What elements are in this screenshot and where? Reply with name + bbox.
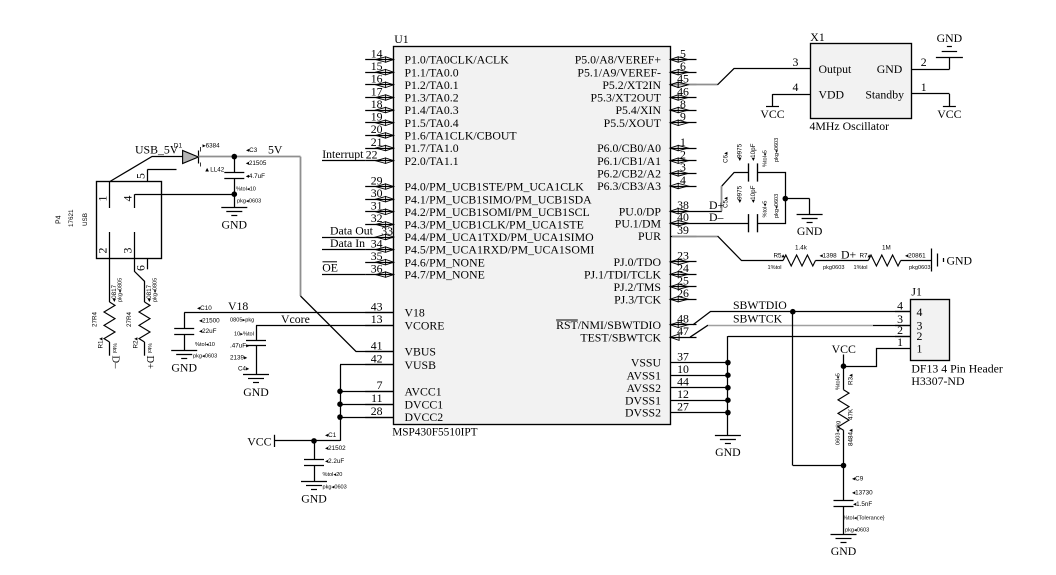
svg-text:GND: GND — [715, 445, 741, 459]
svg-text:C4▸: C4▸ — [238, 366, 249, 373]
U1 pin 10 AVSS1 — [626, 362, 696, 382]
supply VCC bottom left — [247, 434, 274, 448]
U1 pin 33 P4.4/PM_UCA1TXD/PM_UCA1SIMO — [365, 224, 594, 244]
junction 5V / C3 — [232, 154, 238, 160]
svg-text:R7▴: R7▴ — [860, 252, 871, 259]
svg-text:43: 43 — [371, 299, 383, 313]
svg-text:GND: GND — [937, 31, 963, 45]
junction SBWTDIO / pullup branch — [790, 309, 796, 315]
capacitor C6 — [749, 163, 758, 181]
junction DVCC2 rail — [337, 414, 343, 420]
ground under C9 — [831, 535, 857, 559]
svg-text:8484▴: 8484▴ — [848, 429, 855, 446]
U1 pin 25 PJ.2/TMS — [613, 274, 696, 294]
J1 pin 2 — [895, 323, 923, 343]
svg-text:◂10pF: ◂10pF — [750, 143, 757, 161]
svg-text:1: 1 — [897, 335, 903, 349]
U1 pin 17 P1.3/TA0.2 — [365, 84, 459, 104]
svg-text:P6.3/CB3/A3: P6.3/CB3/A3 — [597, 179, 661, 193]
wire R7 to sideways ground flag — [901, 260, 932, 262]
U1 pin 8 P5.4/XIN — [615, 97, 696, 117]
junction C5/C6 ground node — [783, 196, 789, 202]
svg-text:◂C10: ◂C10 — [197, 305, 212, 312]
wire 5V net vertical down and diagonal to VBUS pin 41 — [301, 157, 394, 352]
U1 pin 13 VCORE — [365, 312, 444, 332]
USB pin 5 stub — [133, 170, 176, 182]
svg-text:%tol: %tol — [111, 343, 117, 353]
wire Vcore net to pin 13 — [256, 325, 394, 327]
U1 pin 41 VBUS — [365, 338, 436, 358]
svg-text:◂4.7uF: ◂4.7uF — [246, 173, 265, 180]
svg-text:◂C1: ◂C1 — [325, 432, 337, 439]
svg-text:pkg◂0603: pkg◂0603 — [845, 528, 869, 534]
R7 attribute labels — [854, 245, 931, 272]
svg-text:TEST/SBWTCK: TEST/SBWTCK — [580, 330, 661, 344]
connector P4 USB receptacle body — [97, 182, 162, 259]
C4 attribute labels — [230, 318, 254, 373]
svg-text:0805▸pkg: 0805▸pkg — [230, 318, 254, 324]
svg-text:VDD: VDD — [819, 87, 845, 101]
supply VCC at X1 VDD — [760, 107, 784, 122]
svg-text:PJ.3/TCK: PJ.3/TCK — [614, 292, 661, 306]
wire R3 to C9 junction — [843, 430, 845, 465]
C3 attribute labels — [236, 147, 267, 205]
svg-text:◂9975: ◂9975 — [737, 185, 744, 203]
svg-text:C6▴: C6▴ — [723, 152, 730, 163]
U1 pin 37 VSSU — [631, 349, 697, 369]
U1 pin 1 P6.0/CB0/A0 — [597, 135, 696, 155]
ground above X1 pin 2 — [936, 31, 963, 57]
svg-text:P4: P4 — [56, 215, 63, 224]
svg-text:VUSB: VUSB — [405, 358, 437, 372]
wire R2 to net D+ — [144, 342, 146, 356]
svg-text:4: 4 — [897, 299, 903, 313]
svg-text:R1▴: R1▴ — [98, 337, 105, 348]
net label OE (active low) on pin 36 — [322, 261, 365, 275]
ground for C5 C6 — [797, 215, 823, 239]
wire VUSB pin 42 collector rail — [340, 365, 394, 441]
svg-text:DVSS2: DVSS2 — [625, 406, 661, 420]
C1 attribute labels — [323, 432, 347, 491]
svg-text:GND: GND — [171, 361, 197, 375]
U1 pin 32 P4.3/PM_UCB1CLK/PM_UCA1STE — [365, 211, 584, 231]
U1 pin 29 P4.0/PM_UCB1STE/PM_UCA1CLK — [365, 173, 584, 193]
USB pin 1 — [96, 182, 110, 208]
X1 pin 4 VDD — [773, 80, 845, 106]
U1 pin 47 TEST/SBWTCK — [580, 324, 696, 344]
U1 pin 14 P1.0/TA0CLK/ACLK — [365, 46, 509, 66]
wire USB pin 2 down to resistor R1 — [109, 258, 111, 302]
wire R1 to net D- — [109, 342, 111, 356]
svg-text:pkg0603: pkg0603 — [823, 265, 844, 271]
capacitor C10 — [174, 313, 194, 351]
svg-text:11: 11 — [371, 391, 382, 405]
svg-text:4: 4 — [121, 196, 135, 202]
svg-text:DVCC2: DVCC2 — [405, 410, 444, 424]
R3 attribute labels — [836, 373, 855, 446]
svg-text:Standby: Standby — [865, 87, 904, 101]
resistor R7 1M — [868, 255, 900, 266]
U1 pin 35 P4.6/PM_NONE — [365, 249, 485, 269]
resistor R1 — [104, 302, 115, 342]
J1 pin 1 — [897, 335, 922, 355]
svg-text:17621: 17621 — [68, 209, 75, 227]
svg-text:1%tol: 1%tol — [854, 265, 868, 271]
svg-text:◂2.2uF: ◂2.2uF — [325, 458, 344, 465]
svg-text:H3307-ND: H3307-ND — [911, 374, 965, 388]
svg-text:GND: GND — [222, 217, 248, 231]
svg-text:D–: D– — [110, 356, 121, 370]
svg-text:PUR: PUR — [638, 229, 661, 243]
wire SBWTCK net from pin 47 to J1 pin 3 — [690, 325, 911, 337]
svg-text:USB: USB — [82, 213, 89, 226]
ground under C3 — [221, 208, 247, 232]
svg-text:J1: J1 — [911, 284, 922, 298]
IC U1 MSP430F5510IPT body — [394, 47, 671, 425]
svg-text:DVCC1: DVCC1 — [405, 397, 444, 411]
svg-text:27: 27 — [677, 399, 689, 413]
net label Interrupt on pin 22 — [322, 147, 365, 161]
junction DVCC1 rail — [337, 401, 343, 407]
svg-text:◂21505: ◂21505 — [246, 160, 267, 167]
C9 attribute labels — [843, 476, 885, 534]
U1 pin 24 PJ.1/TDI/TCLK — [584, 261, 697, 281]
svg-text:%tol◂5: %tol◂5 — [836, 373, 842, 390]
svg-text:27R4: 27R4 — [92, 311, 99, 327]
svg-text:7: 7 — [377, 378, 383, 392]
svg-text:VCC: VCC — [832, 342, 856, 356]
svg-text:GND: GND — [301, 491, 327, 505]
svg-text:◂C3: ◂C3 — [246, 147, 258, 154]
svg-text:GND: GND — [243, 385, 269, 399]
U1 pin 45 arrow glyph overlay — [670, 82, 688, 87]
resistor R5 1.4k — [783, 255, 815, 266]
resistor R3 47K — [838, 390, 849, 431]
U1 pin 20 P1.6/TA1CLK/CBOUT — [365, 122, 517, 142]
svg-text:X1: X1 — [810, 30, 825, 44]
U1 pin 23 PJ.0/TDO — [613, 249, 696, 269]
svg-text:Vcore: Vcore — [281, 312, 310, 326]
U1 pin 2 P6.1/CB1/A1 — [597, 148, 696, 168]
X1 pin 1 Standby — [865, 80, 949, 107]
wire C5 up to ground junction — [758, 199, 786, 224]
connector USB rotated designator text — [56, 209, 90, 227]
svg-text:D+: D+ — [841, 248, 857, 262]
svg-text:GND: GND — [947, 253, 973, 267]
svg-text:D+: D+ — [144, 356, 155, 370]
U1 pin 5 P5.0/A8/VEREF+ — [575, 46, 697, 66]
svg-text:OE: OE — [322, 261, 338, 275]
junction AVSS1 rail — [725, 372, 731, 378]
junction GND / USB pin 4 wire / C3 — [232, 191, 238, 197]
D1 designator and value labels — [174, 142, 225, 173]
junction R3 / C9 / SBWTDIO branch — [841, 463, 847, 469]
svg-text:41: 41 — [371, 338, 383, 352]
R2 attribute labels — [126, 278, 159, 349]
wire PUR net pin 39 to resistor R5 — [672, 236, 783, 260]
net label Data Out on pin 33 — [322, 223, 374, 237]
U1 pin 19 P1.5/TA0.4 — [365, 110, 459, 130]
svg-text:U1: U1 — [394, 32, 409, 46]
svg-text:1: 1 — [921, 80, 927, 94]
wire from USB pin 4 to C3 ground junction — [135, 194, 234, 196]
svg-text:USB_5V: USB_5V — [135, 142, 179, 156]
svg-text:pkg0603: pkg0603 — [909, 265, 930, 271]
U1 pin 43 V18 — [365, 299, 425, 319]
svg-text:P5.5/XOUT: P5.5/XOUT — [604, 116, 662, 130]
svg-text:VCC: VCC — [937, 107, 961, 121]
X1 pin 2 GND — [877, 55, 950, 76]
svg-text:27R4: 27R4 — [126, 311, 133, 327]
wire V18 net to pin 43 — [184, 312, 394, 314]
svg-text:SBWTDIO: SBWTDIO — [733, 298, 787, 312]
junction DVSS1 rail — [725, 397, 731, 403]
svg-text:1%tol: 1%tol — [768, 265, 782, 271]
wire C3 to ground — [234, 194, 236, 207]
svg-text:D1: D1 — [174, 142, 183, 149]
svg-text:33: 33 — [381, 224, 393, 238]
svg-text:P4.7/PM_NONE: P4.7/PM_NONE — [405, 268, 485, 282]
U1 pin 30 P4.1/PM_UCB1SIMO/PM_UCB1SDA — [365, 186, 592, 206]
svg-text:D–: D– — [709, 210, 724, 224]
svg-text:4: 4 — [917, 305, 923, 319]
svg-text:◂10pF: ◂10pF — [750, 185, 757, 203]
U1 pin 4 P6.3/CB3/A3 — [597, 173, 696, 193]
junction AVCC1 rail — [337, 389, 343, 395]
U1 pin 44 AVSS2 — [626, 375, 696, 395]
svg-text:%tol◂{Tolerance}: %tol◂{Tolerance} — [843, 516, 885, 522]
svg-text:22: 22 — [366, 148, 378, 162]
junction VCC / C1 — [311, 438, 317, 444]
svg-text:VCORE: VCORE — [405, 319, 445, 333]
svg-text:GND: GND — [877, 62, 903, 76]
diode D1 — [183, 151, 199, 164]
supply VCC at X1 Standby — [937, 107, 961, 121]
svg-text:R2▴: R2▴ — [133, 337, 140, 348]
wire 5V net from D1 cathode through C3 junction to corner — [198, 156, 300, 158]
J1 pin 4 — [895, 299, 923, 319]
svg-text:Data In: Data In — [330, 236, 365, 250]
svg-text:pkg◂0603: pkg◂0603 — [774, 194, 780, 218]
svg-text:pkg◂0603: pkg◂0603 — [193, 354, 217, 360]
svg-text:VCC: VCC — [247, 434, 271, 448]
U1 pin 26 PJ.3/TCK — [614, 286, 696, 306]
svg-text:1: 1 — [96, 196, 110, 202]
USB pin 3 — [121, 232, 135, 258]
R5 attribute labels — [768, 245, 845, 272]
U1 pin 16 P1.2/TA0.1 — [365, 72, 459, 92]
R1 attribute labels — [92, 278, 124, 349]
svg-text:0603◂pkg: 0603◂pkg — [836, 421, 842, 445]
svg-text:V18: V18 — [228, 299, 248, 313]
U1 pin 11 DVCC1 — [365, 391, 443, 411]
svg-text:C5▴: C5▴ — [723, 197, 730, 208]
wire J1 pin 1 to VCC junction — [844, 349, 911, 367]
U1 pin 48 RST/NMI/SBWTDIO — [556, 312, 696, 332]
U1 pin 31 P4.2/PM_UCB1SOMI/PM_UCB1SCL — [365, 199, 590, 219]
svg-text:2139▸: 2139▸ — [230, 355, 247, 362]
U1 pin 39 PUR — [638, 223, 696, 243]
junction AVSS2 rail — [725, 385, 731, 391]
USB pin 4 — [121, 194, 135, 208]
capacitor C5 — [749, 214, 758, 232]
U1 pin 21 P1.7/TA1.0 — [365, 135, 459, 155]
wire XT2IN pin 45 to oscillator X1 output — [673, 69, 810, 85]
svg-text:2: 2 — [921, 55, 927, 69]
svg-text:R5▴: R5▴ — [774, 252, 785, 259]
capacitor C4 — [246, 325, 266, 374]
ground under C10 — [171, 351, 197, 375]
svg-text:2: 2 — [96, 248, 110, 254]
svg-text:28: 28 — [371, 404, 383, 418]
U1 pin 36 P4.7/PM_NONE — [365, 261, 485, 281]
svg-text:4: 4 — [792, 80, 798, 94]
junction DVSS2 rail — [725, 410, 731, 416]
wire ground rail collecting VSS pins and J1 pin 2 — [697, 336, 911, 435]
USB pin 2 — [96, 232, 110, 258]
svg-text:%tol◂10: %tol◂10 — [236, 186, 256, 192]
wire junction to SBWTDIO vertical branch — [793, 312, 844, 466]
wire C6 to ground junction — [758, 173, 786, 199]
U1 pin 27 DVSS2 — [625, 399, 697, 419]
svg-text:pkg◂0805: pkg◂0805 — [153, 278, 159, 302]
svg-text:5: 5 — [133, 173, 147, 179]
svg-text:PU.1/DM: PU.1/DM — [615, 216, 662, 230]
J1 pin 3 — [895, 312, 923, 332]
svg-text:◂1398: ◂1398 — [820, 252, 838, 259]
U1 pin 9 P5.5/XOUT — [604, 110, 697, 130]
ground under C1 — [301, 482, 327, 506]
C10 attribute labels — [193, 305, 220, 360]
connector J1 body — [911, 300, 950, 361]
svg-text:4MHz Oscillator: 4MHz Oscillator — [810, 119, 890, 133]
svg-text:pkg◂0603: pkg◂0603 — [774, 138, 780, 162]
svg-text:◂1.5nF: ◂1.5nF — [853, 501, 872, 508]
wire USB_5V net from USB pin 1 to diode D1 — [109, 157, 182, 182]
U1 pin 3 P6.2/CB2/A2 — [597, 160, 696, 180]
U1 pin 15 P1.1/TA0.0 — [365, 59, 459, 79]
wire between R5 and R7 — [816, 260, 869, 262]
U1 pin 28 DVCC2 — [365, 404, 443, 424]
U1 pin 18 P1.4/TA0.3 — [365, 97, 459, 117]
junction VSSU rail — [725, 360, 731, 366]
svg-text:▸6384: ▸6384 — [203, 143, 221, 150]
U1 pin 12 DVSS1 — [625, 387, 697, 407]
svg-text:GND: GND — [831, 544, 857, 558]
svg-text:6: 6 — [133, 265, 147, 271]
svg-text:Output: Output — [819, 62, 852, 76]
junction VCC / R3 — [841, 363, 847, 369]
svg-text:%tol◂20: %tol◂20 — [323, 472, 343, 478]
ground under U1 VSS rail — [715, 436, 741, 460]
svg-text:1: 1 — [917, 342, 923, 356]
svg-text:Interrupt: Interrupt — [322, 147, 364, 161]
svg-text:P2.0/TA1.1: P2.0/TA1.1 — [405, 154, 459, 168]
U1 pin 38 PU.0/DP — [619, 198, 697, 218]
svg-text:%tol◂5: %tol◂5 — [763, 150, 769, 167]
svg-text:VCC: VCC — [760, 107, 784, 121]
net label D- below R1 — [110, 343, 121, 369]
svg-text:10▸%tol: 10▸%tol — [234, 332, 254, 338]
svg-text:MSP430F5510IPT: MSP430F5510IPT — [392, 426, 477, 438]
capacitor C9 — [834, 466, 854, 535]
svg-text:V18: V18 — [405, 306, 425, 320]
capacitor C1 — [304, 441, 324, 481]
wire D+ net from pin 38 to capacitor C6 — [697, 173, 749, 212]
wire SBWTDIO net from pin 48 to J1 pin 4 — [693, 312, 911, 325]
svg-text:3: 3 — [792, 55, 798, 69]
svg-text:◂13730: ◂13730 — [852, 490, 873, 497]
C5 attribute labels — [723, 185, 781, 218]
svg-text:◂22uF: ◂22uF — [199, 328, 217, 335]
svg-text:pkg◂0603: pkg◂0603 — [237, 199, 261, 205]
svg-text:%tol: %tol — [146, 343, 152, 353]
svg-text:42: 42 — [371, 352, 383, 366]
U1 pin 22 P2.0/TA1.1 — [365, 148, 459, 168]
svg-text:13: 13 — [371, 312, 383, 326]
svg-text:GND: GND — [797, 224, 823, 238]
U1 pin 45 P5.2/XT2IN — [602, 72, 696, 92]
svg-text:VBUS: VBUS — [405, 345, 436, 359]
U1 pin 40 PU.1/DM — [615, 210, 697, 230]
svg-text:1.4k: 1.4k — [795, 245, 808, 252]
U1 pin 42 VUSB — [365, 352, 436, 372]
svg-text:47K: 47K — [848, 408, 855, 420]
svg-text:◂20861: ◂20861 — [905, 252, 926, 259]
svg-text:pkg◂0805: pkg◂0805 — [118, 278, 124, 302]
resistor R2 — [139, 302, 150, 342]
capacitor C3 — [224, 157, 244, 195]
svg-text:39: 39 — [677, 223, 689, 237]
C6 attribute labels — [723, 138, 781, 167]
supply VCC above R3 — [832, 342, 856, 366]
wire ground node to GND symbol — [785, 199, 809, 215]
wire USB pin 3 jog down to resistor R2 — [135, 258, 145, 302]
U1 pin 34 P4.5/PM_UCA1RXD/PM_UCA1SOMI — [365, 236, 594, 256]
svg-text:AVCC1: AVCC1 — [405, 384, 442, 398]
svg-text:◂21500: ◂21500 — [199, 317, 220, 324]
X1 pin 3 Output — [792, 55, 851, 76]
oscillator X1 body — [811, 44, 912, 119]
svg-text:%tol◂5: %tol◂5 — [763, 201, 769, 218]
svg-text:SBWTCK: SBWTCK — [733, 311, 783, 325]
ground under C4 — [243, 375, 269, 399]
U1 pin 6 P5.1/A9/VEREF- — [577, 59, 696, 79]
svg-text:◂C9: ◂C9 — [852, 476, 864, 483]
svg-text:▲LL42: ▲LL42 — [204, 167, 225, 174]
svg-text:pkg◂0603: pkg◂0603 — [323, 485, 347, 491]
svg-text:R3▴: R3▴ — [848, 374, 855, 385]
svg-text:%tol◂10: %tol◂10 — [195, 342, 215, 348]
svg-text:◂9975: ◂9975 — [737, 143, 744, 161]
svg-text:1M: 1M — [882, 245, 891, 252]
svg-text:.47uF▸: .47uF▸ — [230, 343, 249, 350]
net label D+ below R2 — [144, 343, 155, 369]
U1 pin 46 P5.3/XT2OUT — [591, 84, 697, 104]
svg-text:3: 3 — [121, 248, 135, 254]
svg-text:5V: 5V — [268, 142, 283, 156]
svg-text:◂21502: ◂21502 — [325, 445, 346, 452]
wire VCC junction to resistor R3 — [843, 366, 845, 390]
wire D- net from pin 40 to capacitor C5 — [697, 223, 749, 225]
wire VCC to rail — [274, 440, 340, 442]
U1 pin 7 AVCC1 — [365, 378, 442, 398]
USB pin 6 stub — [133, 258, 147, 271]
ground flag sideways at end of PUR chain — [932, 249, 973, 272]
net label Data In on pin 34 — [322, 236, 365, 250]
